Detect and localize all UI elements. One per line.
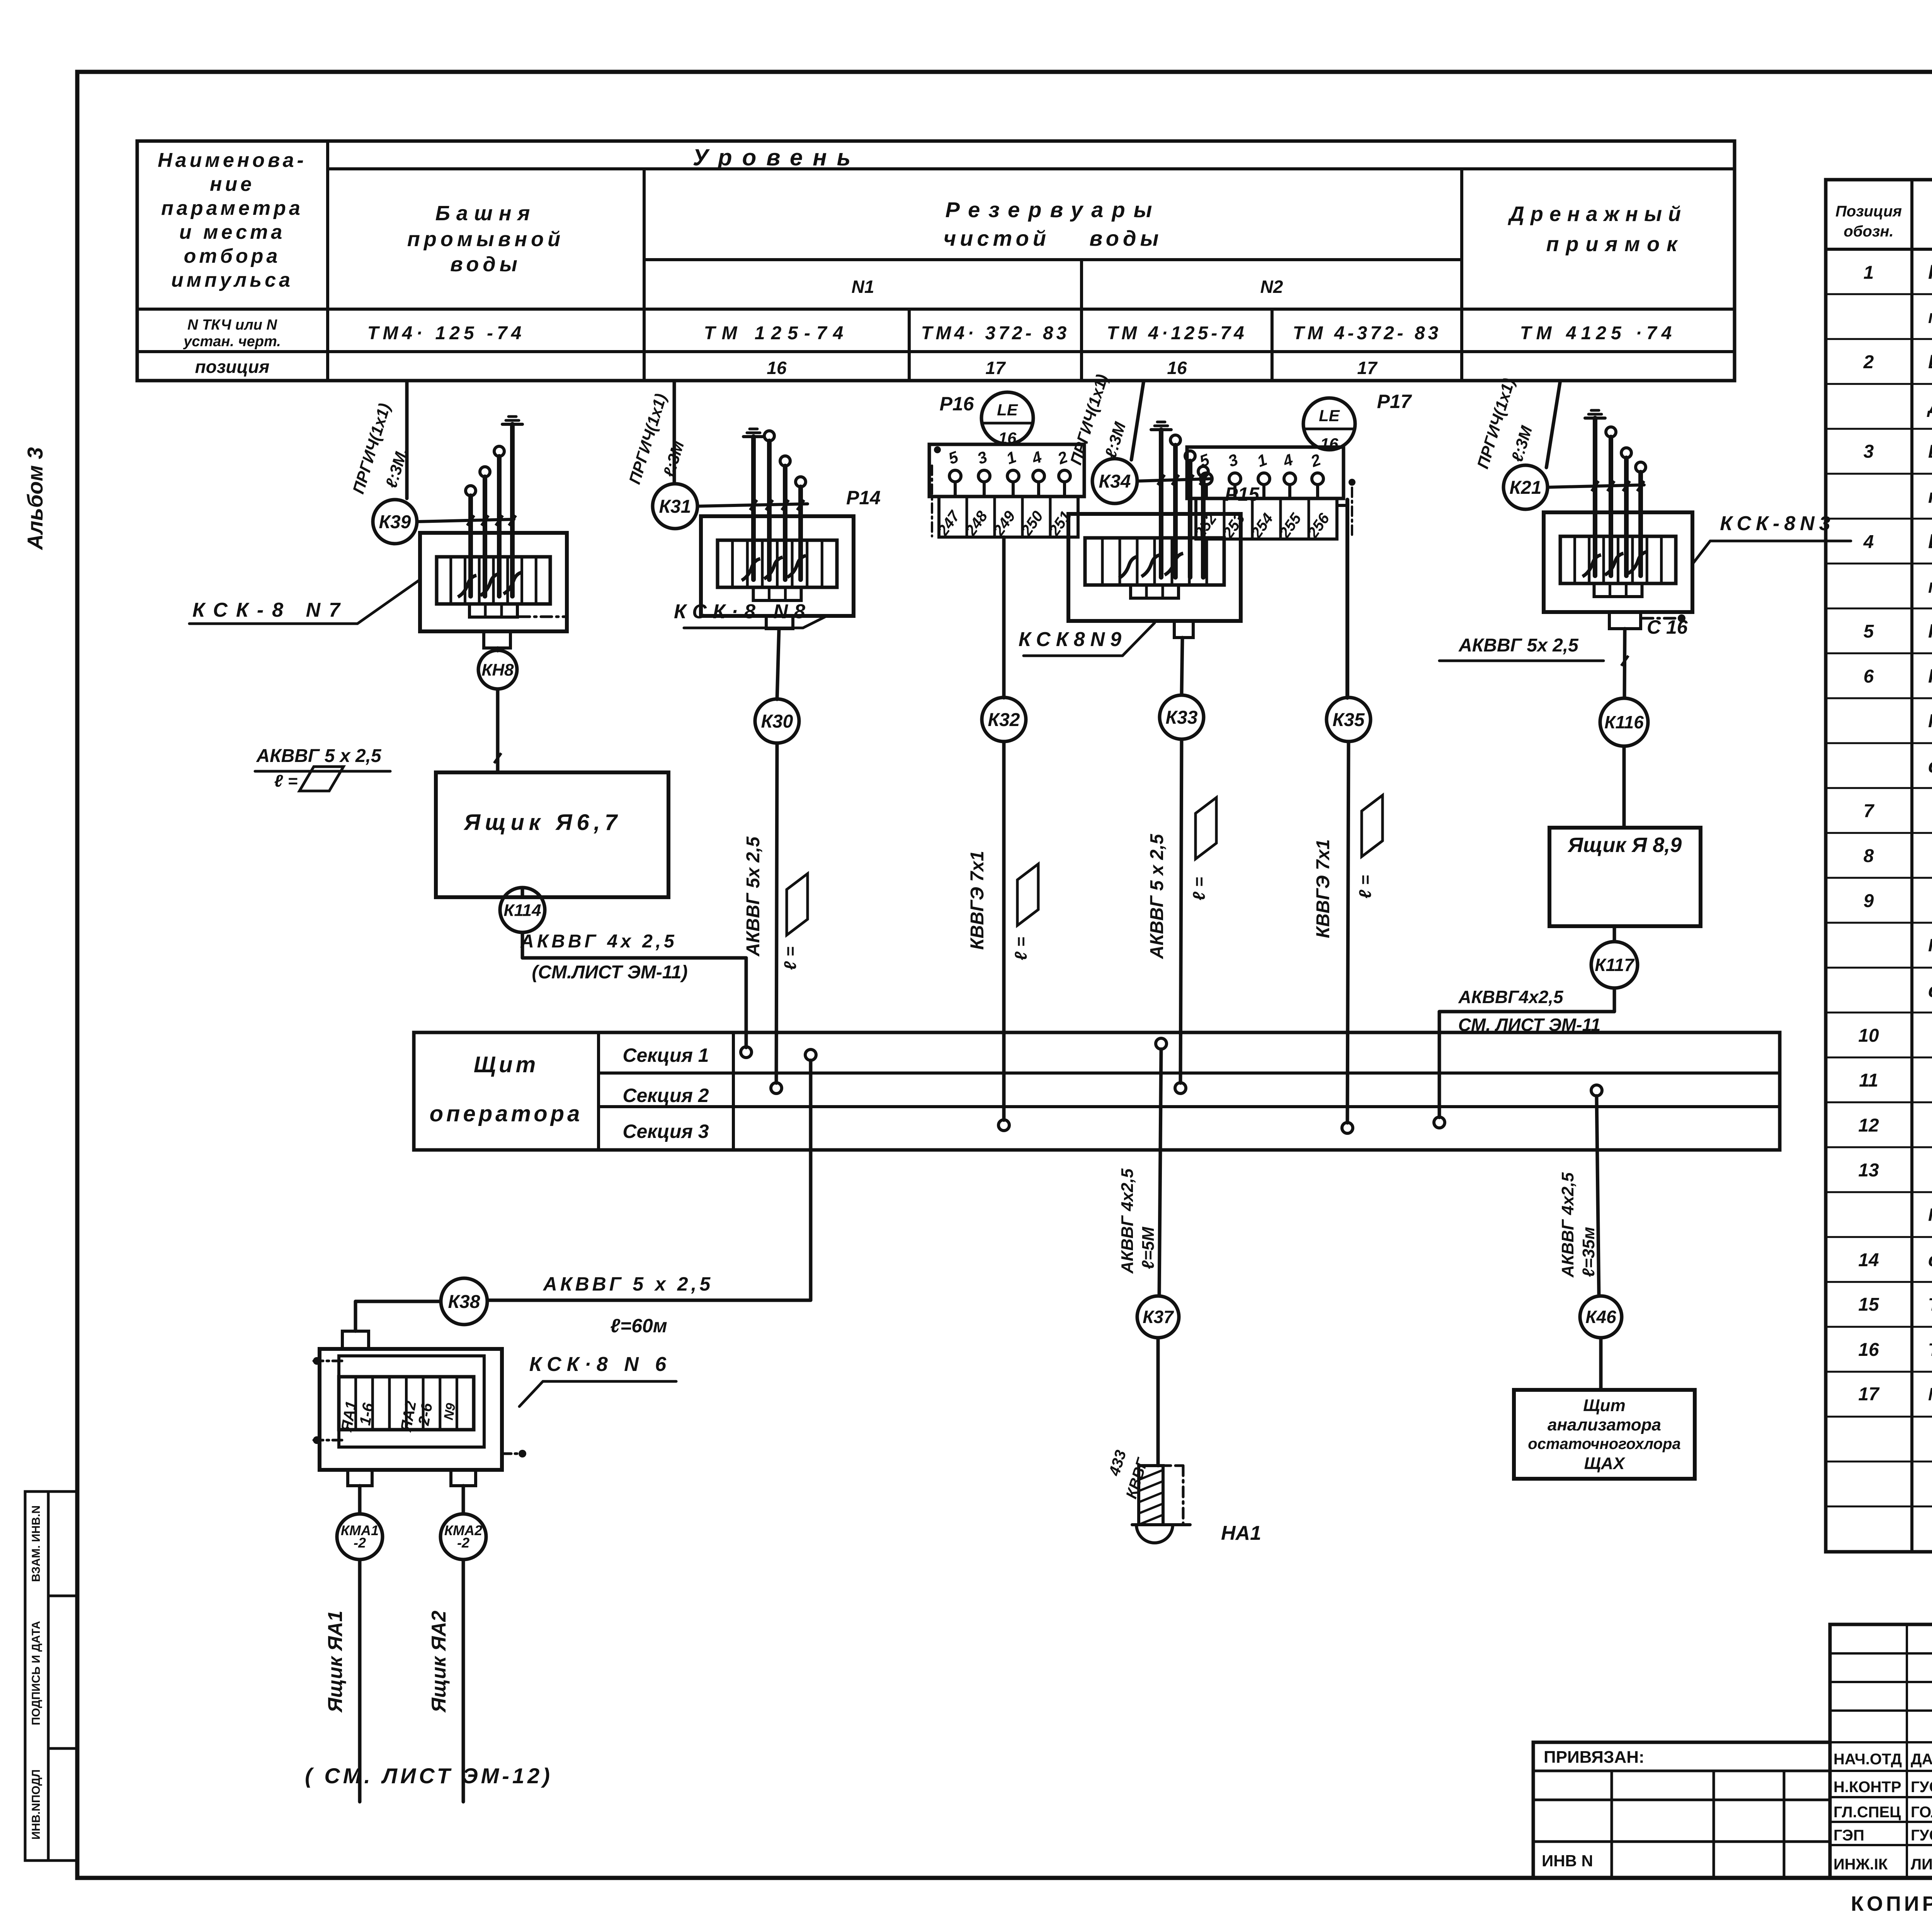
- svg-text:Вентиль 15550 Р-3М запорный си: Вентиль 15550 Р-3М запорный сильфон-: [1928, 442, 1932, 462]
- cable marker КМА1-2: [337, 1514, 383, 1560]
- wire end terminal: [1198, 466, 1208, 476]
- svg-text:Кабель с алюминиевой жилой ГОС: Кабель с алюминиевой жилой ГОСТ1508-78Е: [1928, 935, 1932, 955]
- parameter table header Резервуары чистой воды: [944, 197, 1163, 250]
- svg-text:сечением:: сечением:: [1928, 980, 1932, 1002]
- svg-text:муфтовый Ду=15мм.: муфтовый Ду=15мм.: [1928, 575, 1932, 597]
- wire К33 to panel section 2: [1180, 739, 1182, 1083]
- svg-text:ВЗАМ. ИНВ.N: ВЗАМ. ИНВ.N: [30, 1505, 43, 1582]
- wire Р17 to К35: [1338, 500, 1347, 698]
- wire N6 to КМА1-2: [358, 1486, 362, 1514]
- svg-text:и места: и места: [179, 221, 285, 243]
- cable marker К31: [653, 484, 697, 529]
- wire Р16 to К32: [1002, 537, 1006, 698]
- svg-text:АКВВГ 5 х 2,5: АКВВГ 5 х 2,5: [543, 1273, 714, 1295]
- ground: [502, 417, 522, 424]
- svg-text:К21: К21: [1510, 478, 1542, 498]
- length box on К30 wire: [781, 874, 808, 970]
- svg-text:СМ. ЛИСТ ЭМ-11: СМ. ЛИСТ ЭМ-11: [1458, 1015, 1601, 1035]
- terminal row Р17 pin numbers 5 3 1 4 2: [1197, 450, 1323, 471]
- bottom tab N3: [1609, 612, 1641, 629]
- svg-text:КВВГЭ 7х1: КВВГЭ 7х1: [1313, 839, 1333, 938]
- operator panel Щит оператора box: [414, 1032, 1780, 1150]
- wire N7 to КН8: [496, 648, 500, 651]
- svg-text:17: 17: [985, 358, 1006, 378]
- wire horizontal to К38: [488, 1299, 811, 1302]
- label КСК-8 N8: [674, 600, 827, 628]
- svg-text:16: 16: [767, 358, 787, 378]
- svg-text:позиция: позиция: [195, 357, 270, 377]
- svg-text:АКВВГ 5 х 2,5: АКВВГ 5 х 2,5: [256, 746, 381, 766]
- wire К30 to panel section 2: [776, 743, 777, 1083]
- svg-text:воды: воды: [450, 253, 521, 276]
- svg-text:-2: -2: [457, 1535, 469, 1551]
- wire: [751, 437, 756, 580]
- svg-text:15: 15: [1858, 1294, 1879, 1315]
- terminal row Р16 core number cells 247-251: [934, 497, 1078, 539]
- terminal on section 1 for К114: [741, 1047, 752, 1058]
- wire: [497, 456, 502, 596]
- junction box КСК-8 N8 terminal strip: [718, 540, 837, 587]
- wire N3 to К116: [1624, 629, 1625, 698]
- wire: [1593, 418, 1597, 576]
- svg-text:ℓ =: ℓ =: [781, 947, 800, 970]
- svg-text:Кран трехходовой натяжной: Кран трехходовой натяжной: [1928, 261, 1932, 283]
- svg-text:Ящик Я6,7: Ящик Я6,7: [463, 810, 622, 835]
- svg-text:анализатора: анализатора: [1548, 1415, 1661, 1434]
- svg-text:16: 16: [1167, 358, 1187, 378]
- svg-text:Р17: Р17: [1377, 391, 1412, 412]
- junction box КСК-8 N6 terminal strip: [338, 1377, 474, 1434]
- svg-text:обозн.: обозн.: [1844, 223, 1893, 240]
- svg-text:ℓ =: ℓ =: [274, 772, 298, 791]
- svg-text:ГУСЕВА: ГУСЕВА: [1911, 1779, 1932, 1796]
- title block left box ПРИВЯЗАН: [1533, 1742, 1830, 1878]
- svg-text:АКВВГ 5х 2,5: АКВВГ 5х 2,5: [743, 836, 764, 957]
- svg-text:К35: К35: [1333, 710, 1365, 730]
- terminal row Р17 terminals: [1201, 473, 1323, 498]
- wire Ящик Я6,7 to К114: [521, 888, 524, 897]
- svg-text:КСК·8 N 6: КСК·8 N 6: [529, 1353, 672, 1376]
- svg-text:ТМ4· 125 -74: ТМ4· 125 -74: [367, 323, 526, 344]
- cable label АКВВГ 5х2,5 for К116 wire: [1439, 635, 1628, 666]
- bottom tabs N6: [348, 1470, 476, 1486]
- cable label АКВВГ 4х2,5 СМ.ЛИСТ ЭМ-11: [520, 931, 688, 983]
- cable marker К30: [755, 699, 799, 743]
- dash-dot mark at Р17: [1349, 479, 1355, 537]
- cable marker К38: [441, 1278, 487, 1325]
- svg-text:ℓ=35м: ℓ=35м: [1579, 1227, 1598, 1277]
- svg-text:К30: К30: [761, 711, 793, 732]
- svg-text:9: 9: [1864, 891, 1874, 911]
- svg-text:КСК·8 N8: КСК·8 N8: [674, 600, 811, 623]
- svg-text:муфтовый 14М1; Ду=15мм; Ру=16к: муфтовый 14М1; Ду=15мм; Ру=16кгс/см: [1928, 307, 1932, 327]
- svg-text:N9: N9: [441, 1402, 459, 1421]
- svg-text:К114: К114: [503, 901, 541, 920]
- svg-text:К116: К116: [1604, 712, 1644, 732]
- svg-text:Щит: Щит: [474, 1052, 539, 1077]
- wire К114 to panel section 1: [522, 932, 746, 1048]
- svg-text:4: 4: [1863, 532, 1874, 553]
- label КСК-8 N 6: [519, 1353, 676, 1406]
- wire: [1159, 430, 1163, 577]
- wire N6 to КМА2-2: [462, 1486, 465, 1514]
- terminal row Р17 box: [1187, 447, 1344, 498]
- instrument LE 16 at Р17: [1303, 398, 1355, 453]
- svg-text:ГЛ.СПЕЦ: ГЛ.СПЕЦ: [1833, 1804, 1901, 1821]
- box Ящик Я8,9: [1549, 828, 1701, 926]
- svg-text:промывной: промывной: [407, 228, 564, 251]
- wire: [798, 487, 803, 580]
- svg-text:ЛИТВИНОВА: ЛИТВИНОВА: [1911, 1856, 1932, 1873]
- svg-text:14: 14: [1858, 1250, 1879, 1270]
- length box on К35 wire: [1356, 795, 1383, 898]
- margin label Альбом 3: [23, 447, 47, 551]
- svg-text:Провод гибкий с медной жилой Г: Провод гибкий с медной жилой ГОСТ20520-8…: [1928, 1204, 1932, 1225]
- cable marker К114: [500, 888, 545, 932]
- box Щит анализатора ЩАХ: [1514, 1390, 1695, 1479]
- bottom tab N7: [484, 631, 510, 648]
- wire К35 to panel section 3: [1347, 742, 1349, 1123]
- wire section1 down to К38 level: [809, 1060, 813, 1300]
- bottom tab N8: [766, 616, 793, 629]
- svg-text:13: 13: [1858, 1160, 1879, 1181]
- wire N8 to К30: [777, 629, 779, 699]
- cable marker К33: [1160, 695, 1204, 739]
- svg-text:7: 7: [1864, 801, 1875, 821]
- wire: [483, 477, 487, 596]
- parameter table column 1 header text: [158, 149, 307, 377]
- wire end terminal: [480, 467, 490, 477]
- cable marker К21: [1503, 465, 1548, 509]
- svg-text:КСК-8 N7: КСК-8 N7: [192, 599, 349, 621]
- cable marker К117: [1591, 942, 1638, 988]
- label КСК-8 N7: [189, 580, 420, 624]
- ground: [743, 429, 764, 437]
- wire section1 to К37: [1159, 1049, 1161, 1296]
- wire К32 to panel section 3: [1002, 742, 1006, 1120]
- wire К117 to panel section 3: [1439, 988, 1614, 1117]
- svg-text:16: 16: [1320, 435, 1338, 453]
- wire section2 to К46: [1597, 1096, 1599, 1296]
- svg-text:ПРИВЯЗАН:: ПРИВЯЗАН:: [1544, 1748, 1645, 1767]
- junction box КСК-8 N3 terminal strip: [1560, 536, 1676, 583]
- length box on К32 wire: [1012, 864, 1038, 960]
- wire К37 to НА1: [1156, 1338, 1160, 1466]
- cable label ПРГИЧ(1х1) l:3М for К39: [349, 401, 411, 496]
- svg-text:С 16: С 16: [1647, 616, 1688, 638]
- parameter table header Дренажный приямок: [1508, 202, 1687, 256]
- parameter table grid: [137, 141, 1735, 381]
- svg-text:Щит: Щит: [1583, 1396, 1626, 1415]
- wire end terminal: [764, 431, 774, 441]
- svg-text:N1: N1: [852, 277, 874, 297]
- svg-text:К31: К31: [659, 497, 691, 517]
- terminal row Р16 pin numbers 5 3 1 4 2: [946, 447, 1070, 468]
- svg-text:ℓ=5М: ℓ=5М: [1139, 1226, 1158, 1269]
- svg-text:LE: LE: [997, 401, 1019, 419]
- svg-text:Наименова-: Наименова-: [158, 149, 307, 172]
- terminal row Р16 terminals: [949, 470, 1070, 497]
- cable label 433 КВВГ vertical: [1105, 1448, 1151, 1501]
- svg-text:отбора: отбора: [184, 245, 281, 267]
- svg-text:чистой воды: чистой воды: [944, 226, 1163, 250]
- label КСК-8N3: [1692, 512, 1851, 564]
- svg-text:ПОДПИСЬ И ДАТА: ПОДПИСЬ И ДАТА: [30, 1621, 43, 1725]
- svg-text:8: 8: [1864, 846, 1874, 866]
- margin stamp boxes: [25, 1492, 77, 1861]
- svg-text:КСК-8N3: КСК-8N3: [1720, 512, 1835, 535]
- wire end terminal: [1621, 448, 1631, 458]
- svg-text:устан. черт.: устан. черт.: [183, 333, 281, 350]
- wire К46 to ЩАХ: [1599, 1338, 1603, 1390]
- junction box КСК8 N9 bottom tabs: [1131, 585, 1179, 598]
- parts list table grid: [1826, 180, 1932, 1552]
- svg-text:К117: К117: [1595, 955, 1635, 975]
- terminal on section 1 for К37 drop: [1156, 1038, 1167, 1049]
- wire end terminal: [780, 456, 790, 466]
- cable label ПРГИЧ(1х1) l:3М for К34: [1066, 372, 1129, 467]
- svg-text:Позиция: Позиция: [1835, 203, 1902, 220]
- terminal row Р17 core number cells 252-256: [1191, 498, 1337, 541]
- wire КМА1-2 to Ящик ЯА1: [358, 1560, 362, 1802]
- svg-text:ЩАХ: ЩАХ: [1584, 1454, 1626, 1473]
- terminal row Р16 box: [929, 444, 1084, 497]
- cable marker К34: [1092, 459, 1137, 503]
- svg-text:ТМ 125-74: ТМ 125-74: [704, 323, 850, 344]
- dash-dot marks at N6: [313, 1357, 526, 1458]
- terminal on section 3 for К32: [998, 1120, 1009, 1131]
- svg-text:ИНВ N: ИНВ N: [1542, 1852, 1593, 1870]
- terminal on section 2 for К46 drop: [1591, 1085, 1602, 1096]
- wire: [510, 424, 515, 596]
- svg-text:Альбом 3: Альбом 3: [23, 447, 47, 551]
- cable marker КН8: [478, 650, 517, 689]
- svg-text:КВВГЭ 7х1: КВВГЭ 7х1: [967, 851, 988, 950]
- terminal on section 2 for К33: [1175, 1083, 1186, 1094]
- svg-text:Уровень: Уровень: [693, 145, 861, 170]
- junction box КСК-8 N8 outline: [701, 516, 854, 616]
- svg-text:сечением: ПРГИ 1х1мм: сечением: ПРГИ 1х1мм: [1928, 1249, 1932, 1270]
- wire N9 to К33: [1182, 638, 1182, 695]
- wire: [767, 441, 772, 580]
- bottom tab N9: [1174, 621, 1193, 638]
- svg-text:ℓ =: ℓ =: [1356, 875, 1375, 899]
- svg-text:КН8: КН8: [481, 660, 514, 679]
- svg-text:12: 12: [1858, 1115, 1879, 1136]
- junction box КСК8 N9 terminal strip: [1085, 538, 1224, 585]
- svg-text:10: 10: [1858, 1026, 1879, 1046]
- svg-text:КСК8N9: КСК8N9: [1019, 628, 1127, 651]
- parameter table row позиция values: [767, 358, 1378, 378]
- svg-text:Коробка соединительная КСК-8: Коробка соединительная КСК-8: [1928, 620, 1932, 642]
- wire end terminal: [1170, 435, 1180, 445]
- svg-text:5: 5: [1864, 621, 1874, 642]
- length box on К33 wire: [1190, 798, 1216, 900]
- wire Ящик Я8,9 to К117: [1613, 926, 1616, 941]
- svg-text:ГОЛЬЦМАН: ГОЛЬЦМАН: [1911, 1804, 1932, 1821]
- svg-text:импульса: импульса: [171, 269, 293, 291]
- terminal on section 3 for К35: [1342, 1122, 1353, 1133]
- dash-dot link at N3: [1642, 614, 1685, 622]
- junction box КСК-8 N3 bottom tabs: [1594, 583, 1642, 597]
- svg-text:АКВВГ 4х 2,5: АКВВГ 4х 2,5: [520, 931, 677, 952]
- svg-text:Вентиль ЭВ-2М запорный муфтовы: Вентиль ЭВ-2М запорный муфтовый: [1928, 351, 1932, 372]
- junction box КСК-8 N6 outline: [320, 1349, 502, 1470]
- length box for КН8 wire: [274, 767, 344, 791]
- parameter table header Башня промывной воды: [407, 202, 564, 276]
- svg-text:сечением.: сечением.: [1928, 755, 1932, 777]
- svg-text:Труба бесшовная: Труба бесшовная: [1928, 1340, 1932, 1360]
- wire from table to К31: [673, 381, 676, 484]
- svg-text:ТМ 4-372- 83: ТМ 4-372- 83: [1293, 323, 1442, 344]
- wire from table to К39: [405, 381, 409, 498]
- svg-text:Р14: Р14: [846, 487, 881, 509]
- junction box КСК-8 N7 outline: [420, 533, 567, 631]
- cable label АКВВГ 5х2,5 for КН8 wire: [255, 746, 501, 771]
- terminal on section 3 for К117: [1434, 1117, 1445, 1128]
- cable marker К46: [1580, 1296, 1622, 1338]
- junction box КСК-8 N7 bottom tabs: [469, 604, 517, 617]
- wire: [1609, 437, 1613, 576]
- junction box КСК-8 N3 outline: [1544, 512, 1692, 612]
- cable label ПРГИЧ(1х1) l:3М for К21: [1473, 376, 1536, 471]
- wire К116 to Ящик Я8,9: [1622, 746, 1626, 828]
- wire: [1201, 476, 1206, 577]
- svg-text:1: 1: [1864, 262, 1874, 283]
- marker line with ticks К31: [697, 500, 808, 510]
- wire: [783, 466, 787, 580]
- parts list item 16 with fractions: [1858, 1328, 1932, 1366]
- svg-text:Башня: Башня: [435, 202, 536, 225]
- svg-text:К33: К33: [1166, 707, 1198, 728]
- wire end terminal: [796, 477, 806, 487]
- svg-text:ГЭП: ГЭП: [1833, 1827, 1864, 1844]
- label КСК8N9: [1019, 623, 1155, 656]
- svg-text:ТМ4· 372- 83: ТМ4· 372- 83: [921, 323, 1070, 344]
- svg-text:Кабель с медной жилой ГОСТ 150: Кабель с медной жилой ГОСТ 1508-78 Е: [1928, 711, 1932, 731]
- junction box КСК8 N9 outline: [1068, 514, 1241, 621]
- svg-text:11: 11: [1859, 1070, 1878, 1091]
- svg-text:3: 3: [1864, 442, 1874, 462]
- svg-text:Дренажный: Дренажный: [1508, 202, 1687, 226]
- svg-text:17: 17: [1858, 1384, 1880, 1405]
- svg-text:остаточногохлора: остаточногохлора: [1528, 1435, 1680, 1452]
- svg-text:N2: N2: [1260, 277, 1283, 297]
- cable marker КМА2-2: [440, 1514, 486, 1560]
- wire end terminal: [494, 446, 504, 456]
- svg-text:Вентиль 154 8п2 запорный: Вентиль 154 8п2 запорный: [1928, 531, 1932, 553]
- wire end terminal: [466, 486, 476, 496]
- svg-text:ТМ 4125 ·74: ТМ 4125 ·74: [1520, 323, 1677, 344]
- svg-text:АКВВГ 5х 2,5: АКВВГ 5х 2,5: [1458, 635, 1579, 656]
- svg-text:оператора: оператора: [430, 1101, 583, 1126]
- svg-text:К38: К38: [448, 1292, 480, 1312]
- junction box КСК-8 N8 bottom tabs: [753, 587, 801, 600]
- svg-text:АКВВГ 5 х 2,5: АКВВГ 5 х 2,5: [1147, 833, 1167, 959]
- svg-text:17: 17: [1357, 358, 1378, 378]
- svg-text:К32: К32: [988, 710, 1020, 730]
- svg-text:К34: К34: [1099, 471, 1131, 492]
- ground: [1151, 422, 1171, 430]
- wire К38 to КСК-8 N6: [355, 1301, 441, 1331]
- device НА1 horn: [1132, 1466, 1190, 1543]
- wire from table to К21: [1546, 381, 1560, 468]
- svg-text:ТМ 4·125-74: ТМ 4·125-74: [1107, 323, 1247, 344]
- wire: [1188, 461, 1192, 577]
- svg-text:N ТКЧ или N: N ТКЧ или N: [187, 317, 278, 333]
- wire from table to К34: [1131, 381, 1144, 460]
- junction box КСК-8 N7 terminal strip: [437, 557, 550, 604]
- svg-text:АКВВГ 4х2,5: АКВВГ 4х2,5: [1558, 1172, 1577, 1278]
- svg-text:2: 2: [1863, 352, 1874, 372]
- svg-text:Р16: Р16: [940, 393, 975, 415]
- marker line with ticks К21: [1548, 481, 1644, 491]
- svg-text:Секция 2: Секция 2: [622, 1085, 709, 1106]
- svg-text:Металлорукав Р3-4-Х29ТУ22-5370: Металлорукав Р3-4-Х29ТУ22-5370-83Е: [1928, 1384, 1932, 1404]
- svg-text:АКВВГ4х2,5: АКВВГ4х2,5: [1458, 987, 1564, 1007]
- cable label АКВВГ4х2,5 СМ.ЛИСТ ЭМ-11: [1458, 987, 1600, 1035]
- wire: [468, 496, 473, 596]
- cable label ПРГИЧ(1х1) l:3М for К31: [625, 391, 687, 486]
- svg-text:ИНВ.NПОДЛ: ИНВ.NПОДЛ: [30, 1769, 43, 1840]
- svg-text:Р15: Р15: [1225, 483, 1260, 505]
- dash-dot mark at Р16: [932, 446, 941, 536]
- svg-text:ИНЖ.IК: ИНЖ.IК: [1833, 1856, 1888, 1873]
- cable marker К35: [1327, 697, 1371, 742]
- svg-text:К37: К37: [1143, 1307, 1174, 1327]
- svg-text:Н.КОНТР: Н.КОНТР: [1833, 1779, 1901, 1796]
- cable marker К39: [373, 500, 417, 544]
- wire end terminal: [1185, 451, 1195, 461]
- svg-text:Коробка соединительная КСК-16: Коробка соединительная КСК-16: [1928, 665, 1932, 687]
- svg-text:( СМ. ЛИСТ ЭМ-12): ( СМ. ЛИСТ ЭМ-12): [305, 1764, 553, 1788]
- parameter table row ТКЧ values: [367, 323, 1677, 344]
- terminal on section 2 for К30: [771, 1083, 782, 1094]
- parts list header: [1835, 203, 1932, 240]
- svg-text:ние: ние: [210, 173, 255, 196]
- svg-text:ГУСЕВА: ГУСЕВА: [1911, 1827, 1932, 1844]
- svg-text:Ящик Я 8,9: Ящик Я 8,9: [1567, 833, 1682, 857]
- svg-text:Резервуары: Резервуары: [946, 197, 1161, 222]
- dash-dot link at N7: [519, 616, 565, 618]
- cable marker К37: [1137, 1296, 1179, 1338]
- svg-text:НАЧ.ОТД: НАЧ.ОТД: [1833, 1751, 1902, 1768]
- svg-text:ℓ =: ℓ =: [1190, 877, 1209, 901]
- box Ящик Я6,7: [436, 772, 668, 897]
- svg-text:Секция 3: Секция 3: [622, 1121, 709, 1142]
- svg-text:ДАНИЛОВ: ДАНИЛОВ: [1911, 1751, 1932, 1768]
- svg-text:6: 6: [1864, 666, 1874, 687]
- wire КН8 to Ящик Я6,7: [496, 689, 500, 772]
- wire end terminal: [1636, 462, 1646, 472]
- cable marker К116: [1600, 698, 1648, 746]
- svg-text:ℓ=60м: ℓ=60м: [610, 1315, 667, 1337]
- svg-text:Труба бесшовная 14х2-20ГОСТ 87: Труба бесшовная 14х2-20ГОСТ 8734- 75: [1928, 1294, 1932, 1315]
- svg-text:Ящик ЯА1: Ящик ЯА1: [324, 1611, 347, 1713]
- svg-text:(СМ.ЛИСТ ЭМ-11): (СМ.ЛИСТ ЭМ-11): [532, 962, 687, 983]
- svg-text:LE: LE: [1319, 406, 1340, 425]
- top tab N6: [342, 1331, 369, 1349]
- marker line with ticks К34: [1137, 475, 1211, 485]
- cable marker К32: [982, 697, 1026, 742]
- svg-text:параметра: параметра: [161, 197, 303, 219]
- svg-text:ный вакуумный Ду=10 мм.: ный вакуумный Ду=10 мм.: [1928, 486, 1932, 507]
- marker line with ticks К39: [417, 515, 516, 526]
- ground: [1585, 410, 1605, 418]
- wire: [1173, 445, 1178, 577]
- svg-text:-2: -2: [354, 1535, 366, 1551]
- svg-text:16: 16: [1858, 1340, 1879, 1360]
